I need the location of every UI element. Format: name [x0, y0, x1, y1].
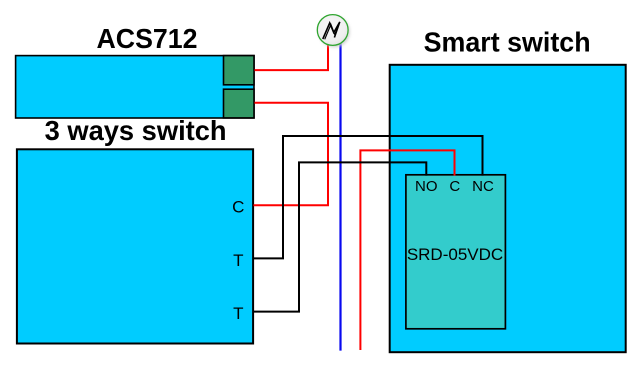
ACS712 terminal pad 1 — [224, 56, 255, 85]
svg-text:C: C — [232, 198, 244, 217]
AC source circle — [317, 15, 348, 46]
smart switch body — [390, 65, 626, 352]
wire red: ACS712 pad 2 to 3-way switch terminal C — [254, 103, 329, 205]
wire red: relay pin C to mains live — [360, 150, 454, 350]
3-way switch body — [17, 149, 253, 343]
wire black: 3-way terminal T1 to relay pin NC — [254, 136, 483, 258]
AC source flash icon stroke 1 — [323, 22, 340, 39]
svg-text:SRD-05VDC: SRD-05VDC — [407, 245, 503, 264]
AC source shadow — [319, 17, 349, 47]
svg-text:C: C — [449, 178, 460, 195]
wire blue: AC source neutral — [339, 43, 341, 350]
wire red: AC source to ACS712 pad 1 — [255, 45, 329, 70]
svg-text:T: T — [233, 251, 243, 270]
svg-text:NO: NO — [415, 178, 438, 195]
ACS712 sensor body — [16, 56, 254, 118]
svg-text:Smart switch: Smart switch — [424, 27, 591, 58]
AC source flash icon stroke 2 — [325, 24, 339, 40]
relay SRD-05VDC — [406, 175, 506, 329]
ACS712 terminal pad 2 — [224, 89, 255, 118]
svg-text:T: T — [233, 304, 243, 323]
svg-text:NC: NC — [472, 178, 494, 195]
svg-text:3 ways switch: 3 ways switch — [45, 115, 227, 146]
wire black: 3-way terminal T2 to relay pin NO — [254, 162, 427, 311]
svg-text:ACS712: ACS712 — [97, 23, 198, 54]
